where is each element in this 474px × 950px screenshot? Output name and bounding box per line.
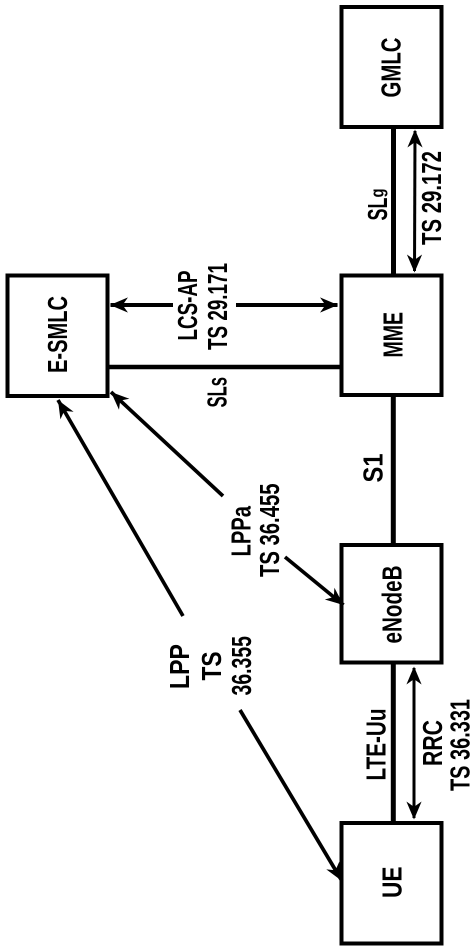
svg-text:LCS-AP: LCS-AP: [172, 271, 203, 341]
wire S1 link: [391, 395, 396, 545]
svg-text:UE: UE: [377, 867, 408, 899]
svg-text:SLs: SLs: [202, 377, 233, 408]
svg-text:RRC: RRC: [417, 720, 448, 766]
svg-text:SL: SL: [362, 198, 393, 221]
svg-text:MME: MME: [378, 312, 409, 358]
box GMLC: [342, 7, 442, 127]
svg-text:GMLC: GMLC: [376, 38, 407, 98]
svg-text:E-SMLC: E-SMLC: [42, 296, 73, 373]
arrow LPP (double-headed diagonal, gap for label): [58, 400, 342, 881]
box eNodeB: [342, 545, 442, 663]
svg-text:TS 29.171: TS 29.171: [202, 263, 233, 350]
arrow LPPa (double-headed diagonal, gap for label): [111, 392, 344, 605]
wire GMLC-MME (SLg link): [391, 127, 396, 276]
box MME: [342, 276, 442, 396]
svg-text:TS 29.172: TS 29.172: [416, 151, 447, 245]
box E-SMLC: [8, 276, 108, 397]
svg-text:g: g: [368, 189, 388, 198]
svg-text:LPP: LPP: [164, 644, 195, 689]
box UE: [342, 823, 442, 944]
svg-text:S1: S1: [358, 454, 389, 483]
wire SLs link: [108, 365, 341, 370]
arrow LCS-AP (double-headed, gap for label): [110, 297, 338, 312]
svg-text:TS 36.331: TS 36.331: [445, 699, 474, 791]
wire LTE-Uu link: [391, 662, 396, 823]
svg-text:TS: TS: [196, 652, 227, 681]
arrow RRC reference (double-headed): [406, 667, 421, 820]
arrow SLg reference (double-headed): [407, 130, 423, 273]
svg-text:eNodeB: eNodeB: [377, 566, 408, 644]
svg-text:LPPa: LPPa: [226, 506, 257, 557]
svg-text:LTE-Uu: LTE-Uu: [361, 709, 392, 781]
svg-text:36.355: 36.355: [226, 636, 257, 696]
svg-text:TS 36.455: TS 36.455: [254, 484, 285, 578]
